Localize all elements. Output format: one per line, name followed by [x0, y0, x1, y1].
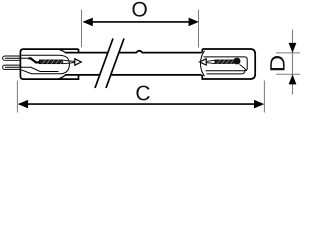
lamp outer cap right (fat end section) [202, 49, 255, 79]
exhaust tip arrow right (open arrowhead pointing left) [206, 60, 215, 63]
exhaust tip arrow left (open arrowhead pointing right) [63, 60, 75, 64]
dimension C extension line right [263, 81, 265, 113]
dimension C arrowhead right [254, 100, 264, 109]
dimension O arrowhead left [83, 18, 93, 27]
dimension O arrowhead right [189, 18, 199, 27]
lamp tube bottom line (narrow mid section, with break gaps) [65, 74, 202, 76]
thick lead-in wire to filament (Z-bend) [29, 58, 40, 62]
inner capsule right end dome arc (full tube height, bulging left) [200, 51, 204, 76]
dimension C line [19, 103, 262, 105]
pin 1 (upper contact pin) [3, 56, 21, 60]
label D (rotated) [270, 56, 284, 70]
break slash 1 [95, 39, 113, 89]
dimension C extension line left [16, 81, 18, 113]
filament right (hatched coil) [215, 60, 233, 63]
label C [136, 86, 149, 101]
tube shoulder curves at left end [59, 50, 65, 79]
dimension O line [84, 21, 197, 23]
inner capsule right end (top line, right edge, bottom line) [204, 57, 248, 71]
pin 1 lead wire [5, 57, 29, 59]
inner capsule left end (top line, dome arc, bottom line) [21, 55, 70, 73]
dimension D line vertical [292, 30, 294, 95]
pin 2 lead wire [5, 67, 59, 71]
dimension C arrowhead left [18, 100, 28, 109]
filament left (hatched coil) [39, 60, 62, 64]
dimension D extension line bottom [276, 73, 300, 75]
dimension D extension line top [276, 52, 300, 54]
filament end blob (seal bead) [233, 58, 240, 64]
pin 2 (lower contact pin) [3, 65, 21, 69]
dimension D arrowhead top (pointing down) [289, 43, 297, 53]
break slash 2 [106, 39, 124, 89]
dimension O extension line left [81, 10, 83, 48]
lead from blob to capsule wall [240, 65, 247, 71]
inner seal lower line right end [207, 71, 245, 74]
label O [132, 2, 146, 17]
lamp outer cap left (fat end section) [20, 49, 78, 79]
dimension O extension line right [198, 10, 200, 48]
lamp tube top line (narrow mid section, with break gaps) [65, 51, 202, 53]
dimension D arrowhead bottom (pointing up) [289, 74, 297, 84]
